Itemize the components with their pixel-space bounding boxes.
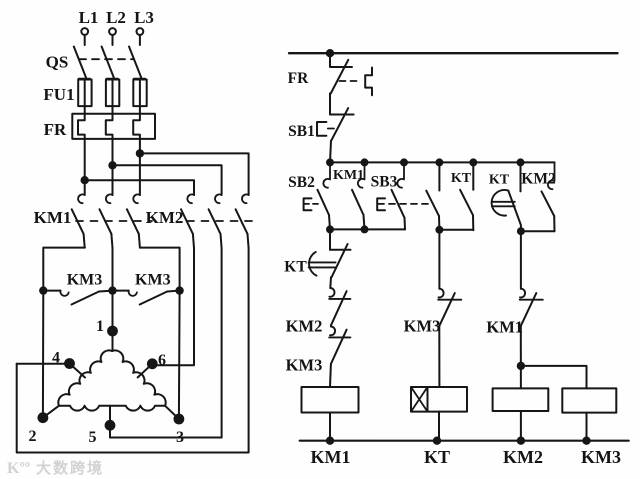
contactor KM1 NC (column C) <box>520 289 543 326</box>
svg-text:KM1: KM1 <box>311 447 351 467</box>
wire phase3 FR to KM1 <box>139 139 141 195</box>
switch QS pole 3 <box>129 47 145 79</box>
wire SB1 to rail2 <box>330 141 331 163</box>
switch QS pole 2 <box>102 47 118 79</box>
node rail2 at C4 <box>436 159 442 165</box>
node rail2 at KT <box>470 159 476 165</box>
wire branch to KM3 coil <box>521 366 587 389</box>
svg-text:KM2: KM2 <box>503 447 543 467</box>
wire join SB2-KM1-SB3 <box>330 228 405 230</box>
wire KM2 coil to bottom rail <box>520 411 522 441</box>
svg-text:KT: KT <box>489 173 510 188</box>
relay contact KT (NO) <box>460 162 473 230</box>
contactor KM1 pole 1 <box>72 194 85 247</box>
svg-text:大数跨境: 大数跨境 <box>36 459 104 477</box>
wire to KM1 coil <box>329 364 332 387</box>
wire terminal 3 tap <box>165 406 179 419</box>
svg-text:FU1: FU1 <box>43 85 74 104</box>
svg-text:KM1: KM1 <box>333 168 364 183</box>
node KM3 row right <box>176 287 182 293</box>
wire KT to KM2 NC <box>329 277 332 288</box>
svg-text:L2: L2 <box>106 8 126 27</box>
wire terminal 4 to outer frame <box>17 363 70 365</box>
svg-text:Kºº: Kºº <box>7 460 30 477</box>
node join KM1 <box>362 226 368 232</box>
relay contact KT delayed (top row) <box>492 162 521 231</box>
relay contact FR (NC) <box>330 53 352 93</box>
node motor terminal 4 <box>65 359 74 368</box>
wire join KT2-KM2 <box>521 230 555 232</box>
svg-text:KM2: KM2 <box>146 208 184 227</box>
svg-text:KM3: KM3 <box>286 356 323 375</box>
wire terminal 5 to KM2 pole2 <box>110 406 222 438</box>
fuse FU1 pole 2 <box>106 79 119 114</box>
button SB2 (NO) <box>304 162 330 229</box>
node L2 terminal <box>109 28 116 45</box>
wire phase1 FR to KM1 <box>84 139 86 195</box>
contactor KM3 contact 2 <box>113 291 180 305</box>
button SB1 (NC) <box>317 94 354 141</box>
node motor terminal 3 <box>175 415 184 424</box>
node KM3 row center <box>109 287 115 293</box>
node L3 terminal <box>137 28 144 45</box>
svg-text:KM2: KM2 <box>521 171 556 188</box>
node top rail junction <box>327 50 333 56</box>
node L1 terminal <box>81 28 88 45</box>
svg-text:SB1: SB1 <box>288 123 315 140</box>
thermal relay FR box <box>72 114 155 139</box>
svg-text:FR: FR <box>44 120 67 139</box>
svg-text:3: 3 <box>176 429 184 446</box>
fuse FU1 pole 3 <box>133 79 146 114</box>
svg-text:5: 5 <box>89 429 97 446</box>
wire column B down <box>438 230 440 289</box>
button SB3 (NO) <box>377 162 428 229</box>
svg-text:L1: L1 <box>79 8 99 27</box>
svg-text:KT: KT <box>284 259 307 276</box>
contactor aux KM1 (NO) <box>352 162 365 229</box>
node rail2 at SB3 <box>401 159 407 165</box>
coil KM1 <box>302 387 359 413</box>
svg-text:QS: QS <box>46 53 69 72</box>
wire KM1 NC to KM2 coil <box>520 326 522 389</box>
wire KM3row-left to terminal 2 <box>42 291 44 418</box>
KM2 linkage dashed <box>187 220 252 222</box>
node motor terminal 1 <box>108 327 117 336</box>
contactor KM2 pole 2 <box>209 194 222 248</box>
relay contact KT delayed opening (column A) <box>309 244 351 277</box>
node join SB2 <box>327 226 333 232</box>
svg-text:KM3: KM3 <box>581 447 621 467</box>
wire KM2 pole1 to terminal 6 <box>152 248 194 365</box>
contactor KM3 NC (column A) <box>329 327 350 364</box>
fuse FU1 pole 1 <box>78 79 91 114</box>
wire column C down <box>520 231 522 289</box>
svg-text:KT: KT <box>424 447 450 467</box>
contactor KM3 NC (column B) <box>438 289 461 326</box>
wire branch phase1 to KM2 pole1 <box>85 180 194 195</box>
wire branch phase3 to KM2 pole3 <box>140 153 249 195</box>
FR heater actuator <box>340 68 373 96</box>
wire KM3 coil to bottom rail <box>586 413 588 441</box>
svg-text:KM1: KM1 <box>486 318 523 337</box>
node bottom rail KM1 <box>327 438 333 444</box>
wire KM1 coil to bottom rail <box>329 413 331 441</box>
wire branch phase2 to KM2 pole2 <box>113 165 222 195</box>
node bottom rail KM2 <box>518 438 524 444</box>
wire column A down <box>329 229 331 249</box>
contact C4 (SB3 linked NO) <box>426 162 439 229</box>
node branch KM3 coil <box>518 363 524 369</box>
wire terminal1 to apex <box>112 331 114 351</box>
svg-text:KT: KT <box>451 171 472 186</box>
node join KT2 <box>518 228 524 234</box>
svg-text:6: 6 <box>158 352 166 369</box>
node bottom rail KT <box>434 438 440 444</box>
FR heater element 1 <box>78 114 85 139</box>
wire KT coil to bottom rail <box>438 412 440 441</box>
coil KM2 <box>493 388 549 411</box>
node branch phase1 <box>82 177 88 183</box>
node rail2 at SB2 <box>327 159 333 165</box>
svg-text:KM1: KM1 <box>34 208 72 227</box>
svg-text:KM2: KM2 <box>286 317 323 336</box>
wire to KT coil <box>438 326 440 387</box>
svg-text:FR: FR <box>288 70 309 87</box>
svg-text:4: 4 <box>52 350 60 367</box>
svg-text:2: 2 <box>29 428 37 445</box>
wire terminal 4 tap <box>70 364 86 378</box>
switch QS pole 1 <box>74 47 90 79</box>
contactor KM1 pole 2 <box>100 194 113 248</box>
node KM3 row left <box>40 287 46 293</box>
wire KM1 pole1 to KM3 row <box>43 248 85 291</box>
FR heater element 2 <box>106 114 113 139</box>
svg-text:L3: L3 <box>134 8 154 27</box>
coil KT <box>411 387 467 412</box>
wire KM3row-right to terminal 3 <box>178 291 181 419</box>
node motor terminal 5 <box>106 421 115 430</box>
contactor KM2 NC (column A) <box>329 288 350 325</box>
QS linkage dashed <box>79 58 134 60</box>
svg-text:1: 1 <box>96 318 104 335</box>
svg-text:KM3: KM3 <box>404 317 441 336</box>
contactor KM2 pole 1 <box>181 194 194 248</box>
watermark <box>7 459 104 477</box>
wire KM1 pole3 to KM3 row <box>140 248 180 291</box>
svg-text:SB2: SB2 <box>288 174 315 191</box>
wire KM2 pole3 outer frame <box>17 248 249 453</box>
node rail2 at KT2 <box>518 159 524 165</box>
wire FR to SB1 <box>329 94 331 96</box>
contactor KM1 pole 3 <box>127 194 140 247</box>
motor winding delta <box>58 350 112 405</box>
wire terminal 2 tap <box>43 406 59 418</box>
wire bottom rail <box>300 440 629 442</box>
svg-text:KM3: KM3 <box>135 272 171 289</box>
wire top rail <box>289 52 618 54</box>
wire rail 2 <box>330 161 555 163</box>
node rail2 at KM1 <box>362 159 368 165</box>
KM1 linkage dashed <box>76 220 152 222</box>
node branch phase3 <box>137 150 143 156</box>
node motor terminal 2 <box>39 413 48 422</box>
node branch phase2 <box>109 162 115 168</box>
FR heater element 3 <box>133 114 140 139</box>
svg-text:SB3: SB3 <box>371 174 398 191</box>
wire KM1 pole2 to motor terminal 1 <box>112 248 114 331</box>
contactor aux KM2 (NO) <box>542 162 555 231</box>
contactor KM2 pole 3 <box>236 194 249 248</box>
node join C4 <box>436 227 442 233</box>
svg-text:KM3: KM3 <box>67 272 103 289</box>
wire terminal 6 tap <box>138 364 153 378</box>
wire KM2 pole2 down <box>221 248 223 438</box>
wire join C4-KT <box>439 229 473 231</box>
node bottom rail KM3 <box>583 438 589 444</box>
wire phase2 FR to KM1 <box>112 139 114 195</box>
contactor KM3 contact 1 <box>43 291 112 305</box>
coil KM3 <box>562 388 616 412</box>
node motor terminal 6 <box>148 359 157 368</box>
